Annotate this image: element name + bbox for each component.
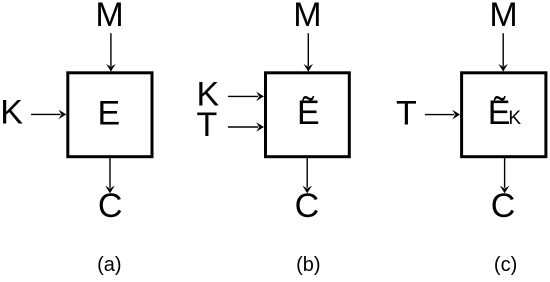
block E (diagram a)	[68, 73, 152, 157]
svg-text:K: K	[508, 108, 521, 129]
svg-text:C: C	[98, 187, 123, 225]
svg-text:C: C	[295, 187, 320, 225]
svg-text:(a): (a)	[97, 254, 121, 276]
svg-text:C: C	[491, 187, 516, 225]
wire M arrow (diagram b)	[304, 33, 314, 71]
wire T arrow (diagram c)	[425, 110, 460, 120]
label E-tilde with subscript K inside block (diagram c)	[488, 91, 522, 132]
wire C arrow (diagram a)	[105, 157, 115, 193]
svg-text:˜: ˜	[493, 91, 506, 129]
svg-text:M: M	[489, 0, 517, 34]
svg-text:(c): (c)	[494, 254, 517, 276]
svg-text:T: T	[197, 106, 218, 144]
wire M arrow (diagram a)	[106, 33, 116, 71]
svg-text:M: M	[95, 0, 123, 34]
label E-tilde inside block (diagram b)	[297, 91, 320, 132]
svg-text:˜: ˜	[302, 91, 315, 129]
svg-text:E: E	[98, 95, 121, 133]
svg-text:T: T	[396, 95, 417, 133]
wire C arrow (diagram b)	[302, 157, 312, 193]
wire M arrow (diagram c)	[498, 33, 508, 71]
svg-text:(b): (b)	[296, 254, 320, 276]
block E-tilde-K (diagram c)	[462, 73, 546, 157]
wire K arrow (diagram b)	[228, 92, 264, 102]
svg-text:M: M	[293, 0, 321, 34]
block E-tilde (diagram b)	[266, 73, 350, 157]
wire C arrow (diagram c)	[500, 157, 510, 193]
wire T arrow (diagram b)	[228, 122, 264, 132]
svg-text:K: K	[0, 94, 23, 132]
wire K arrow (diagram a)	[31, 110, 66, 120]
